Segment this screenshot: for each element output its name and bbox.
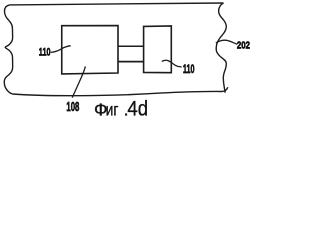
- wire left torn edge of tape 202: [4, 5, 12, 94]
- component block 110 (small rectangle): [144, 26, 172, 73]
- wire leader line to label 108: [72, 66, 85, 97]
- svg-text:202: 202: [237, 40, 250, 51]
- wire leader line to left label 110: [51, 46, 71, 53]
- svg-text:110: 110: [39, 46, 51, 59]
- svg-text:4d: 4d: [127, 97, 148, 120]
- wire lower connector between blocks: [118, 61, 144, 63]
- wire leader line to right label 110: [162, 60, 182, 67]
- component block 110 (large rectangle): [62, 26, 118, 74]
- wire top edge of tape 202: [10, 3, 224, 5]
- wire right torn edge of tape 202: [216, 3, 226, 93]
- svg-text:иг: иг: [106, 101, 119, 120]
- wire leader line to label 202: [216, 40, 238, 44]
- svg-text:108: 108: [66, 101, 79, 114]
- wire upper connector between blocks: [118, 45, 144, 47]
- wire bottom edge of tape 202: [12, 87, 228, 96]
- svg-text:110: 110: [183, 63, 195, 76]
